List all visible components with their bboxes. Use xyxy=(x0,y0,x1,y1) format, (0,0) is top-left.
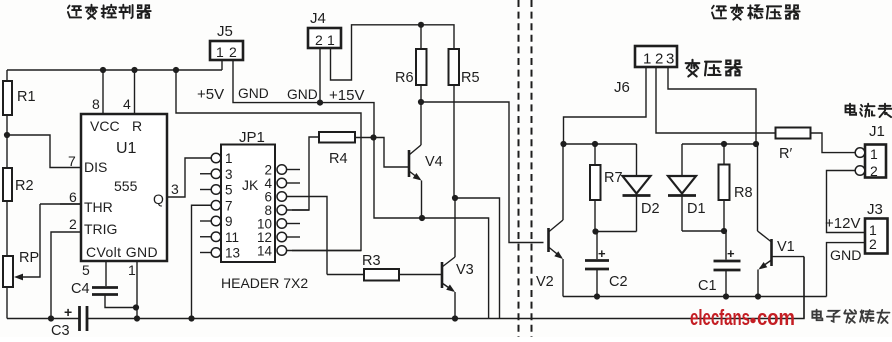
svg-text:2: 2 xyxy=(655,51,663,68)
node dot J6.3/V1 collector xyxy=(753,141,759,147)
capacitor C3 (series in rail) xyxy=(78,306,81,331)
svg-text:14: 14 xyxy=(257,244,273,259)
wire +5V rail2 xyxy=(176,70,361,251)
node dot U1 pin1 ground xyxy=(134,315,140,321)
svg-text:RP: RP xyxy=(19,250,39,266)
node dot +5V/U1 pin4 xyxy=(131,67,137,73)
svg-text:HEADER 7X2: HEADER 7X2 xyxy=(221,275,308,291)
node dot TRIG/ground xyxy=(48,315,54,321)
svg-text:R1: R1 xyxy=(17,89,36,105)
svg-text:elecfans: elecfans xyxy=(690,305,750,330)
svg-text:+: + xyxy=(598,246,606,261)
svg-text:3: 3 xyxy=(225,167,233,182)
node dot +5V/rail2 drop xyxy=(173,67,179,73)
wire R6 node to V2 base xyxy=(421,102,544,243)
wire R3 right to V3 base xyxy=(399,274,442,276)
JP1 pin6 wire to R3 xyxy=(287,197,327,275)
node dot R6 top xyxy=(418,22,424,28)
wire +5V rail xyxy=(7,69,222,71)
svg-text:com: com xyxy=(757,305,795,330)
node dot V3 emitter ground xyxy=(452,315,458,321)
svg-text:C3: C3 xyxy=(51,323,70,337)
node dot R8 top xyxy=(721,141,727,147)
svg-text:J4: J4 xyxy=(310,10,326,27)
svg-text:8: 8 xyxy=(92,96,100,112)
wire R6 top riser xyxy=(420,25,422,49)
svg-text:7: 7 xyxy=(68,153,76,169)
JP1 pin2 stub xyxy=(287,169,300,171)
wire DIS pin7 to R1/R2 junction xyxy=(7,135,81,168)
svg-text:GND: GND xyxy=(830,248,862,264)
JP1 pin10 stub xyxy=(287,223,300,225)
wire C2 bottom xyxy=(596,269,598,297)
wire R-prime right to J1 pin1 xyxy=(811,133,856,153)
resistor R-prime xyxy=(776,128,811,139)
svg-text:1: 1 xyxy=(128,262,136,278)
section title: inverter controller (逆变控制器) xyxy=(68,6,81,18)
JP1 pin13 stub xyxy=(200,252,211,254)
wire V1 collector up to winding rail xyxy=(757,144,759,231)
wire J5 pin2 GND run xyxy=(233,60,489,319)
capacitor C4 xyxy=(92,286,118,289)
wire V1 base riser xyxy=(772,257,805,319)
JP1 pin14 wire to +5V rail2 xyxy=(287,250,361,252)
wire J5 pin1 to +5V rail xyxy=(221,60,223,70)
node dot R6/V2-base node xyxy=(418,99,424,105)
wire C4 bottom to GND node xyxy=(105,295,136,308)
svg-text:2: 2 xyxy=(870,163,878,179)
wire U1 pin5 to C4 xyxy=(105,261,107,286)
node dot R1/R2 junction xyxy=(4,132,10,138)
wire R3 left xyxy=(327,274,364,276)
JP1 pin9 stub xyxy=(200,220,211,222)
svg-text:THR: THR xyxy=(84,199,113,215)
wire R5 bottom to V3 collector node xyxy=(453,85,455,198)
JP1 pin7 wire to ground rail xyxy=(192,205,212,318)
JP1 right pin circles 2,4,6,8,10,12,14 xyxy=(277,165,287,175)
resistor R6 xyxy=(416,49,427,85)
svg-text:R7: R7 xyxy=(604,170,623,186)
wire V3 node to V1 base (crosses divider) xyxy=(455,198,804,319)
wire R4 right xyxy=(355,137,374,139)
node dot R8/C1 xyxy=(721,228,727,234)
svg-text:GND: GND xyxy=(238,86,269,101)
connector J4 xyxy=(308,28,341,48)
svg-text:+: + xyxy=(64,304,72,320)
node dot JP1 pin7 ground xyxy=(188,315,194,321)
node dot R5/V3 collector xyxy=(452,195,458,201)
wire J6 pin2 to R' xyxy=(656,67,776,133)
svg-text:1: 1 xyxy=(216,44,224,60)
svg-text:5: 5 xyxy=(225,183,233,198)
IC U1 555 timer xyxy=(81,114,167,261)
capacitor C1 xyxy=(725,231,727,260)
JP1 left pin circles 1,3,5,7,9,11,13 xyxy=(211,153,221,163)
node dot V4 emitter junction xyxy=(419,215,425,221)
wire U1 pin8 to +5V xyxy=(102,70,104,114)
wire top-right winding rail xyxy=(682,143,758,145)
svg-text:D1: D1 xyxy=(687,201,706,217)
diode D2 xyxy=(636,144,638,176)
svg-text:J6: J6 xyxy=(614,79,630,96)
wire U1 pin4 to +5V xyxy=(134,70,136,114)
transistor V2 xyxy=(547,228,550,252)
wire V4 emitter down xyxy=(421,181,423,219)
J1 pin1 circle xyxy=(855,148,865,158)
svg-text:C2: C2 xyxy=(609,274,628,290)
J1 pin2 circle xyxy=(855,166,865,176)
svg-text:6: 6 xyxy=(69,189,77,205)
wire D1-R8 bottom link xyxy=(682,230,724,232)
wire J6 pin1 to left winding rail xyxy=(564,67,647,144)
transistor V3 xyxy=(441,262,444,288)
svg-text:1: 1 xyxy=(225,151,233,166)
resistor R5 xyxy=(449,49,460,85)
wire R8 bottom xyxy=(723,200,725,231)
node dot R7 top xyxy=(592,141,598,147)
svg-text:11: 11 xyxy=(225,230,239,245)
node dot +5V/U1 pin8 xyxy=(100,67,106,73)
wire J3 pin2 to +12V rail xyxy=(827,243,866,297)
wire V1 emitter down xyxy=(757,270,759,297)
transistor V4 xyxy=(408,150,411,177)
wire V3 collector up to R5 node xyxy=(454,198,456,257)
wire V2 emitter down to +12V rail xyxy=(562,259,564,297)
svg-text:13: 13 xyxy=(225,246,240,261)
svg-text:J3: J3 xyxy=(867,201,883,218)
svg-text:J5: J5 xyxy=(217,23,233,40)
wire R7-D2 bottom link xyxy=(596,231,637,233)
transistor V1 (mirrored) xyxy=(770,239,773,266)
svg-text:TRIG: TRIG xyxy=(84,221,117,237)
svg-text:GND: GND xyxy=(287,87,318,102)
wire C1 bottom xyxy=(725,270,727,297)
svg-text:C4: C4 xyxy=(71,281,90,297)
wire V2 collector up xyxy=(562,144,564,220)
svg-text:V1: V1 xyxy=(777,239,795,255)
svg-text:JP1: JP1 xyxy=(239,129,265,146)
svg-text:VCC: VCC xyxy=(90,118,120,134)
capacitor C2 xyxy=(596,232,598,260)
svg-text:V4: V4 xyxy=(425,154,443,170)
svg-text:DIS: DIS xyxy=(84,159,107,175)
wire top-left winding rail xyxy=(564,143,637,145)
svg-text:555: 555 xyxy=(114,178,138,194)
resistor R7 xyxy=(594,144,596,165)
wire U1 Q pin3 to JP1 pin1 xyxy=(167,158,211,197)
wire RP wiper to THR xyxy=(22,204,81,277)
JP1 pin8 wire stub to R4 riser xyxy=(287,209,309,211)
svg-text:3: 3 xyxy=(666,51,674,68)
svg-text:5: 5 xyxy=(82,262,90,278)
svg-text:R2: R2 xyxy=(15,178,34,194)
connector J5 xyxy=(210,41,243,60)
JP1 pin3 stub xyxy=(200,173,211,175)
label transformer (变压器) xyxy=(686,60,700,77)
svg-text:2: 2 xyxy=(315,32,323,48)
wire U1 pin6 THR stub xyxy=(60,203,81,205)
svg-text:CVolt GND: CVolt GND xyxy=(86,244,158,260)
svg-text:2: 2 xyxy=(229,44,237,60)
svg-text:R5: R5 xyxy=(461,70,480,86)
JP1 pin11 stub xyxy=(200,236,211,238)
wire left vertical bus xyxy=(6,70,8,319)
resistor R8 xyxy=(723,144,725,165)
svg-text:7: 7 xyxy=(225,198,233,213)
node dot C2 ground xyxy=(594,293,600,299)
wire ground rail bottom xyxy=(7,318,489,320)
RP wiper arrow xyxy=(14,274,23,281)
wire R7 bottom xyxy=(594,200,596,232)
svg-text:R6: R6 xyxy=(395,70,414,86)
wire J4 pin2 down xyxy=(319,48,321,103)
svg-text:J1: J1 xyxy=(869,123,885,140)
label ammeter (电流表) xyxy=(846,104,857,115)
svg-text:1: 1 xyxy=(327,32,335,48)
svg-text:R4: R4 xyxy=(329,151,348,167)
connector J6 xyxy=(635,46,677,67)
resistor R1 xyxy=(3,81,12,115)
svg-text:9: 9 xyxy=(225,214,233,229)
svg-text:2: 2 xyxy=(869,236,877,252)
node dot R7/C2 xyxy=(592,228,598,234)
svg-text:+12V: +12V xyxy=(825,215,860,232)
resistor R3 xyxy=(364,269,399,281)
wire V4 base from R4 node xyxy=(374,138,410,168)
node dot J4 pin2 junction xyxy=(317,100,323,106)
svg-text:+: + xyxy=(727,246,735,261)
svg-text:R: R xyxy=(132,118,142,134)
svg-text:V3: V3 xyxy=(456,262,474,278)
node dot C4/pin1 xyxy=(133,304,139,310)
svg-text:1: 1 xyxy=(870,146,878,162)
node dot R4 right / +15V drop xyxy=(370,134,376,140)
svg-text:2: 2 xyxy=(69,216,77,232)
watermark 电子发烧友 xyxy=(812,310,822,321)
wire R6 bottom to V4 collector xyxy=(420,85,422,145)
divider dashed line left xyxy=(518,0,520,337)
wire J4 pin1 to R6/R5 top xyxy=(331,25,455,80)
potentiometer RP xyxy=(3,256,13,287)
divider dashed line right xyxy=(531,0,533,337)
svg-text:Q: Q xyxy=(153,191,164,207)
svg-text:JK: JK xyxy=(242,177,259,193)
svg-text:V2: V2 xyxy=(536,274,554,290)
JP1 pin5 stub xyxy=(200,189,211,191)
svg-text:4: 4 xyxy=(123,96,131,112)
JP1 pin4 stub xyxy=(287,182,300,184)
resistor R2 xyxy=(3,168,12,201)
diode D1 xyxy=(681,144,683,176)
node dot C1 ground xyxy=(723,293,729,299)
svg-text:+15V: +15V xyxy=(329,87,364,104)
wire J6 pin3 to right winding rail xyxy=(668,67,756,144)
wire U1 pin1 GND down to rail xyxy=(136,261,138,319)
svg-text:U1: U1 xyxy=(116,140,137,157)
node dot V1 emitter xyxy=(755,293,761,299)
JP1 pin12 stub xyxy=(287,236,300,238)
svg-text:C1: C1 xyxy=(698,278,717,294)
wire +12V emitter rail xyxy=(563,296,827,298)
svg-text:D2: D2 xyxy=(641,201,660,217)
wire R4 left to JP1 pin8 xyxy=(292,137,319,210)
resistor R4 xyxy=(319,132,355,143)
section title: inverter regulator (逆变稳压器) xyxy=(712,6,726,19)
svg-text:R3: R3 xyxy=(362,253,381,269)
svg-text:1: 1 xyxy=(643,51,651,68)
wire J1 pin2 to J3 pin1 xyxy=(827,171,866,233)
svg-text:+5V: +5V xyxy=(197,86,224,103)
wire TRIG pin2 down to ground rail xyxy=(51,232,81,319)
svg-text:R′: R′ xyxy=(779,146,792,162)
wire V3 emitter to ground rail xyxy=(454,292,456,319)
svg-text:R8: R8 xyxy=(734,185,753,201)
svg-text:3: 3 xyxy=(171,181,179,197)
node dot J6.1/V2 collector xyxy=(560,141,566,147)
